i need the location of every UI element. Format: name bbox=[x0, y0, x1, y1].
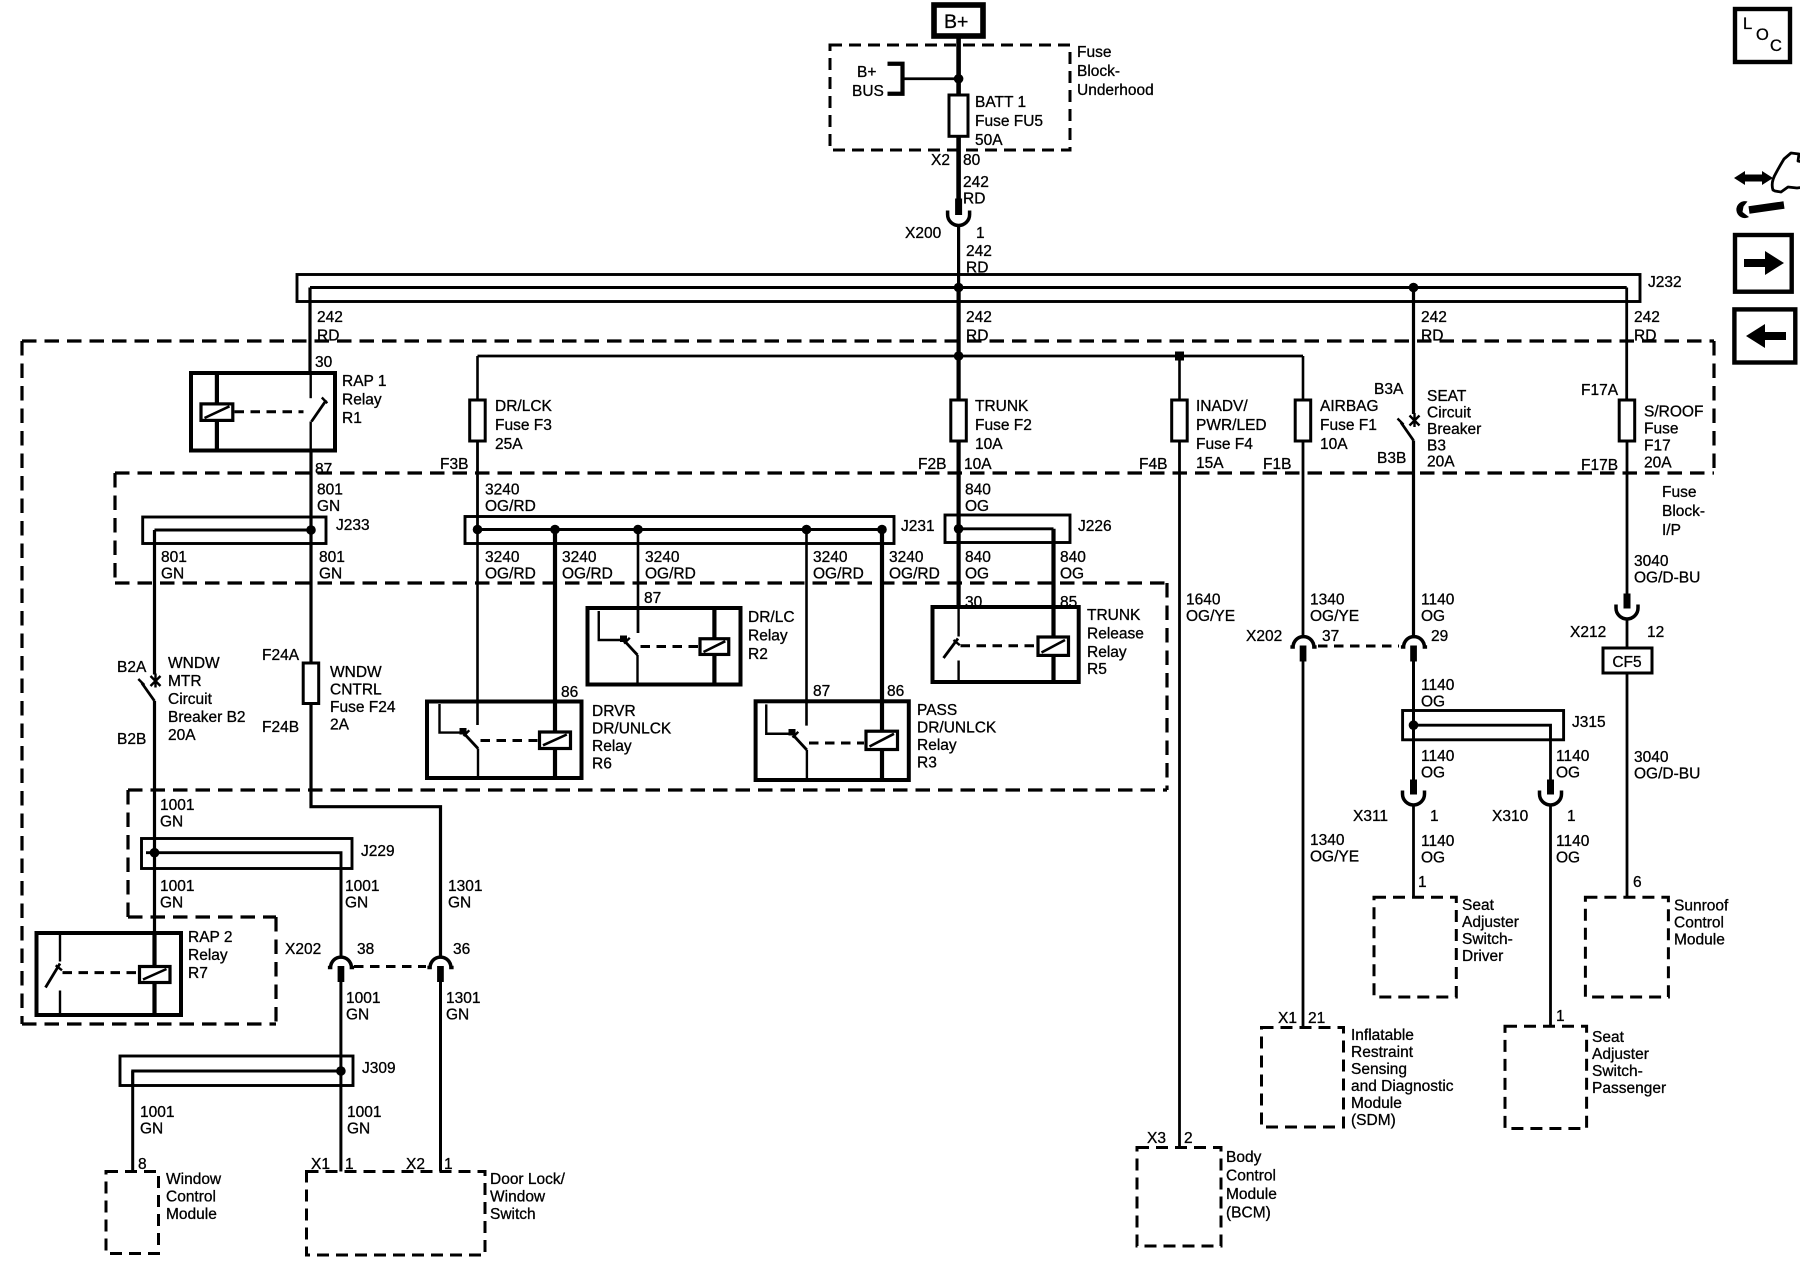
dashed segment x128 bbox=[126, 790, 129, 917]
svg-text:1: 1 bbox=[976, 225, 985, 242]
svg-text:6: 6 bbox=[1633, 874, 1642, 891]
svg-text:38: 38 bbox=[357, 941, 374, 958]
svg-text:Relay: Relay bbox=[342, 392, 382, 409]
relay R6 coil bbox=[540, 732, 571, 778]
inline connector CF5 box bbox=[1603, 648, 1652, 673]
svg-text:X212: X212 bbox=[1570, 624, 1606, 641]
svg-text:1001: 1001 bbox=[160, 797, 194, 814]
svg-text:Module: Module bbox=[1351, 1095, 1402, 1112]
svg-text:MTR: MTR bbox=[168, 673, 202, 690]
svg-text:OG: OG bbox=[1060, 566, 1084, 583]
svg-text:Circuit: Circuit bbox=[1427, 405, 1472, 422]
dashed link X202 upper bbox=[1318, 645, 1399, 648]
svg-text:DR/LCK: DR/LCK bbox=[495, 398, 553, 415]
svg-text:RAP 2: RAP 2 bbox=[188, 929, 233, 946]
svg-text:DR/UNLCK: DR/UNLCK bbox=[592, 721, 672, 738]
svg-text:Passenger: Passenger bbox=[1592, 1080, 1666, 1097]
svg-text:10A: 10A bbox=[1320, 436, 1348, 453]
svg-text:OG/RD: OG/RD bbox=[889, 566, 940, 583]
svg-text:Seat: Seat bbox=[1592, 1029, 1625, 1046]
svg-text:Sunroof: Sunroof bbox=[1674, 898, 1729, 915]
svg-text:1640: 1640 bbox=[1186, 592, 1221, 609]
svg-text:Fuse F2: Fuse F2 bbox=[975, 417, 1032, 434]
svg-text:Fuse: Fuse bbox=[1644, 421, 1678, 438]
svg-text:10A: 10A bbox=[975, 436, 1003, 453]
svg-text:1140: 1140 bbox=[1421, 677, 1455, 694]
relay R1 actuator dashed bbox=[235, 410, 304, 413]
wire F1B to X202-37, 1340 OG/YE bbox=[1302, 441, 1305, 637]
svg-text:OG/RD: OG/RD bbox=[485, 566, 536, 583]
wire J229 to RAP2 coil, 1001 GN bbox=[153, 853, 156, 933]
splice pack J231 inner line bbox=[478, 528, 883, 531]
wire feeder to fuse F3 bbox=[476, 356, 479, 400]
svg-text:X202: X202 bbox=[1246, 628, 1282, 645]
circuit breaker B2 WNDW MTR 20A bbox=[138, 674, 160, 702]
svg-text:GN: GN bbox=[160, 895, 183, 912]
svg-text:F17: F17 bbox=[1644, 438, 1671, 455]
svg-text:Control: Control bbox=[166, 1189, 216, 1206]
svg-text:Module: Module bbox=[1226, 1186, 1277, 1203]
SDM dashed box bbox=[1262, 1028, 1344, 1128]
fuse F1 AIRBAG 10A bbox=[1295, 400, 1311, 441]
wire X202-36 to door lock X2-1, 1301 GN bbox=[439, 982, 442, 1172]
svg-text:F17A: F17A bbox=[1581, 382, 1619, 399]
svg-text:SEAT: SEAT bbox=[1427, 388, 1467, 405]
relay R7 switch bbox=[46, 933, 63, 1015]
svg-text:J231: J231 bbox=[901, 518, 935, 535]
wire J231 to R3 87, 3240 OG/RD bbox=[805, 530, 808, 726]
splice pack J309 outer bbox=[120, 1056, 353, 1086]
svg-text:and Diagnostic: and Diagnostic bbox=[1351, 1078, 1454, 1095]
wire J233 to breaker B2A, 801 GN bbox=[153, 530, 156, 675]
svg-text:80: 80 bbox=[963, 152, 981, 169]
wire F24B to X202-36, 1301 GN bbox=[311, 704, 441, 958]
svg-text:F2B: F2B bbox=[918, 456, 946, 473]
svg-text:DRVR: DRVR bbox=[592, 703, 636, 720]
svg-text:C: C bbox=[1770, 37, 1782, 55]
svg-text:DR/UNLCK: DR/UNLCK bbox=[917, 720, 997, 737]
svg-text:3240: 3240 bbox=[889, 549, 924, 566]
svg-text:DR/LC: DR/LC bbox=[748, 609, 795, 626]
svg-text:Fuse F24: Fuse F24 bbox=[330, 699, 396, 716]
wire F4B to BCM, 1640 OG/YE bbox=[1178, 441, 1181, 1148]
svg-text:1301: 1301 bbox=[448, 878, 482, 895]
svg-text:F1B: F1B bbox=[1263, 456, 1291, 473]
junction square dot feeder at F4 bbox=[1175, 352, 1184, 361]
relay R7 actuator dashed bbox=[63, 971, 138, 974]
svg-text:OG/RD: OG/RD bbox=[562, 566, 613, 583]
junction dot feeder at F2 bbox=[954, 351, 964, 361]
svg-text:Module: Module bbox=[166, 1206, 217, 1223]
wire J233 to fuse F24A, 801 GN bbox=[309, 530, 312, 663]
svg-text:1340: 1340 bbox=[1310, 592, 1345, 609]
svg-text:F24A: F24A bbox=[262, 647, 300, 664]
svg-text:X310: X310 bbox=[1492, 808, 1529, 825]
wire J229 to X202-38, 1001 GN bbox=[340, 869, 343, 958]
svg-text:Adjuster: Adjuster bbox=[1592, 1046, 1649, 1063]
svg-text:(SDM): (SDM) bbox=[1351, 1112, 1396, 1129]
dashed segment x1167 bbox=[1165, 583, 1168, 790]
svg-text:CNTRL: CNTRL bbox=[330, 682, 382, 699]
svg-text:O: O bbox=[1756, 26, 1769, 44]
svg-text:Relay: Relay bbox=[917, 737, 957, 754]
svg-text:Inflatable: Inflatable bbox=[1351, 1027, 1414, 1044]
svg-text:BATT 1: BATT 1 bbox=[975, 94, 1026, 111]
fuse F17 S/ROOF 20A bbox=[1619, 400, 1635, 441]
svg-text:20A: 20A bbox=[168, 727, 196, 744]
wire X310 to passenger switch, 1140 OG bbox=[1549, 806, 1552, 1027]
splice pack J233 inner line bbox=[155, 529, 312, 532]
wire CF5 to sunroof module, 3040 OG/D-BU bbox=[1626, 673, 1629, 897]
fuse block I/P dashed outline left bbox=[20, 341, 23, 1024]
relay R5 TRUNK Release box bbox=[933, 607, 1079, 682]
relay R1 coil bbox=[201, 373, 233, 451]
svg-text:B3: B3 bbox=[1427, 438, 1446, 455]
svg-text:29: 29 bbox=[1431, 628, 1448, 645]
wire feeder to fuse F1 bbox=[1302, 356, 1305, 400]
svg-text:1140: 1140 bbox=[1421, 592, 1455, 609]
wire J231 to R6 switch, 3240 OG/RD bbox=[476, 530, 479, 726]
svg-text:1001: 1001 bbox=[345, 878, 379, 895]
node B+ BUS bracket bbox=[852, 64, 903, 100]
svg-text:OG/YE: OG/YE bbox=[1186, 608, 1235, 625]
svg-text:OG: OG bbox=[1421, 850, 1445, 867]
wire B+ to fuse FU5 bbox=[956, 37, 961, 96]
relay R5 actuator dashed bbox=[961, 644, 1037, 647]
svg-text:OG: OG bbox=[1421, 608, 1445, 625]
nav box arrow left bbox=[1734, 309, 1795, 362]
wire fuse FU5 to X200, 242 RD bbox=[956, 136, 961, 198]
splice pack J309 inner line bbox=[133, 1071, 341, 1086]
svg-text:242: 242 bbox=[966, 309, 992, 326]
svg-text:(BCM): (BCM) bbox=[1226, 1205, 1271, 1222]
fuse block I/P dashed outline right bbox=[1712, 341, 1715, 473]
svg-text:1001: 1001 bbox=[160, 878, 194, 895]
svg-text:OG: OG bbox=[965, 498, 989, 515]
svg-text:36: 36 bbox=[453, 941, 470, 958]
svg-text:RAP 1: RAP 1 bbox=[342, 373, 387, 390]
fuse F24 WNDW CNTRL 2A bbox=[303, 663, 319, 704]
svg-text:840: 840 bbox=[965, 549, 991, 566]
svg-text:OG: OG bbox=[1421, 694, 1445, 711]
wire X202-38 to J309, 1001 GN bbox=[339, 982, 342, 1071]
connector X311 bbox=[1403, 780, 1425, 806]
wire B+ BUS tap bbox=[903, 77, 959, 80]
splice pack J315 outer bbox=[1403, 711, 1564, 740]
wire bus to breaker B3, 242 RD bbox=[1412, 288, 1415, 415]
svg-text:B2B: B2B bbox=[117, 731, 146, 748]
svg-text:Fuse F3: Fuse F3 bbox=[495, 417, 552, 434]
svg-text:TRUNK: TRUNK bbox=[975, 398, 1029, 415]
svg-text:J233: J233 bbox=[336, 517, 370, 534]
fuse F4 INADV/PWR/LED 15A bbox=[1172, 400, 1188, 441]
svg-text:30: 30 bbox=[315, 354, 333, 371]
bus bar J232 outer bbox=[297, 275, 1640, 302]
svg-text:OG/RD: OG/RD bbox=[813, 566, 864, 583]
svg-text:801: 801 bbox=[319, 549, 345, 566]
wire J315 to X310, 1140 OG bbox=[1549, 740, 1552, 780]
svg-text:F3B: F3B bbox=[440, 456, 468, 473]
svg-text:WNDW: WNDW bbox=[168, 655, 220, 672]
door lock window switch dashed box bbox=[307, 1172, 486, 1256]
svg-text:Body: Body bbox=[1226, 1149, 1262, 1166]
svg-text:Fuse: Fuse bbox=[1662, 484, 1696, 501]
splice pack J233 outer bbox=[143, 517, 326, 544]
svg-text:Adjuster: Adjuster bbox=[1462, 914, 1519, 931]
connector X202-29 bbox=[1401, 637, 1427, 662]
svg-text:GN: GN bbox=[319, 566, 342, 583]
fuse F2 TRUNK 10A bbox=[951, 400, 967, 441]
svg-text:Fuse F1: Fuse F1 bbox=[1320, 417, 1377, 434]
svg-text:RD: RD bbox=[963, 191, 985, 208]
junction dot J233 at F24 column bbox=[306, 525, 316, 535]
wire B2B to J229, 1001 GN bbox=[153, 701, 156, 853]
svg-text:TRUNK: TRUNK bbox=[1087, 607, 1141, 624]
svg-text:242: 242 bbox=[317, 309, 343, 326]
sunroof control module dashed box bbox=[1585, 897, 1668, 997]
svg-text:Driver: Driver bbox=[1462, 948, 1503, 965]
svg-text:242: 242 bbox=[966, 243, 992, 260]
seat adjuster switch driver dashed box bbox=[1374, 897, 1456, 997]
bus bar J232 inner line bbox=[310, 286, 1627, 289]
svg-text:2A: 2A bbox=[330, 717, 350, 734]
relay R2 coil bbox=[700, 608, 729, 685]
svg-text:Window: Window bbox=[490, 1189, 546, 1206]
svg-text:B3A: B3A bbox=[1374, 381, 1404, 398]
svg-text:Module: Module bbox=[1674, 932, 1725, 949]
fuse block I/P dashed outline top bbox=[22, 339, 1714, 342]
fuse F3 DR/LCK 25A bbox=[470, 400, 486, 441]
connector X212 bbox=[1616, 594, 1638, 620]
fuse FU5 BATT 1 50A bbox=[949, 95, 968, 136]
wire F17B to X212, 3040 OG/D-BU bbox=[1626, 441, 1629, 594]
relay R3 switch bbox=[766, 704, 807, 780]
svg-text:801: 801 bbox=[161, 549, 187, 566]
svg-text:37: 37 bbox=[1322, 628, 1339, 645]
relay R7 coil bbox=[140, 967, 171, 1016]
splice pack J226 outer bbox=[945, 515, 1070, 543]
junction dot J226 bbox=[954, 524, 964, 534]
svg-text:1140: 1140 bbox=[1556, 833, 1590, 850]
svg-text:1140: 1140 bbox=[1556, 748, 1590, 765]
connector X202-37 bbox=[1290, 637, 1316, 662]
svg-text:OG/YE: OG/YE bbox=[1310, 849, 1359, 866]
connector X202-36 bbox=[427, 957, 453, 982]
relay R5 switch bbox=[944, 607, 960, 682]
svg-text:1: 1 bbox=[1556, 1008, 1565, 1025]
connector X200 bbox=[948, 199, 970, 226]
svg-text:Breaker B2: Breaker B2 bbox=[168, 709, 246, 726]
junction dot bus at SEAT drop bbox=[1409, 283, 1419, 293]
svg-text:X202: X202 bbox=[285, 941, 321, 958]
svg-text:3240: 3240 bbox=[562, 549, 597, 566]
BCM dashed box bbox=[1137, 1148, 1221, 1247]
LOC reference box bbox=[1735, 9, 1790, 62]
svg-text:X3: X3 bbox=[1147, 1130, 1166, 1147]
svg-text:Door Lock/: Door Lock/ bbox=[490, 1171, 566, 1188]
relay R3 actuator dashed bbox=[809, 742, 864, 745]
wire RAP1 87 to J233, 801 GN bbox=[309, 451, 312, 531]
nav box arrow right bbox=[1735, 235, 1792, 292]
svg-text:CF5: CF5 bbox=[1612, 654, 1641, 671]
relay R2 actuator dashed bbox=[641, 645, 699, 648]
relay R6 switch bbox=[440, 704, 479, 778]
svg-text:F24B: F24B bbox=[262, 719, 299, 736]
relay R1 RAP 1 box bbox=[191, 373, 335, 451]
svg-text:OG/YE: OG/YE bbox=[1310, 608, 1359, 625]
svg-text:X200: X200 bbox=[905, 225, 942, 242]
connector X202-38 bbox=[328, 957, 354, 982]
svg-text:OG/RD: OG/RD bbox=[645, 566, 696, 583]
svg-text:S/ROOF: S/ROOF bbox=[1644, 404, 1703, 421]
svg-text:Seat: Seat bbox=[1462, 897, 1495, 914]
svg-text:86: 86 bbox=[887, 683, 904, 700]
svg-text:1001: 1001 bbox=[347, 1104, 381, 1121]
wire J309 through to window module, 1001 GN bbox=[131, 1071, 134, 1172]
junction dot B+ bus bbox=[954, 74, 964, 84]
svg-text:B+: B+ bbox=[857, 64, 876, 81]
splice pack J231 outer bbox=[465, 517, 894, 544]
svg-text:J232: J232 bbox=[1648, 274, 1682, 291]
svg-text:GN: GN bbox=[448, 895, 471, 912]
relay R3 coil bbox=[866, 731, 898, 780]
svg-text:15A: 15A bbox=[1196, 455, 1224, 472]
svg-text:1: 1 bbox=[1567, 808, 1576, 825]
svg-text:R7: R7 bbox=[188, 965, 208, 982]
relay R6 DRVR DR/UNLCK box bbox=[427, 702, 582, 779]
svg-text:X1: X1 bbox=[1278, 1010, 1297, 1027]
seat adjuster switch passenger dashed box bbox=[1505, 1026, 1587, 1128]
wire feeder to fuse F4 bbox=[1178, 356, 1181, 400]
icon wrench bbox=[1736, 201, 1784, 218]
svg-text:R2: R2 bbox=[748, 646, 768, 663]
svg-text:L: L bbox=[1743, 15, 1752, 33]
svg-text:242: 242 bbox=[1634, 309, 1660, 326]
relay R2 DR/LC box bbox=[588, 608, 741, 685]
svg-text:J226: J226 bbox=[1078, 518, 1112, 535]
svg-text:OG/D-BU: OG/D-BU bbox=[1634, 570, 1700, 587]
svg-text:Block-: Block- bbox=[1662, 503, 1705, 520]
wire bus end to fuse F17, 242 RD bbox=[1625, 288, 1628, 401]
svg-text:INADV/: INADV/ bbox=[1196, 398, 1248, 415]
relay R3 PASS DR/UNLCK box bbox=[756, 701, 909, 780]
junction dot J315 bbox=[1409, 720, 1419, 730]
svg-text:Window: Window bbox=[166, 1171, 222, 1188]
splice pack J229 outer bbox=[142, 839, 353, 869]
svg-text:3240: 3240 bbox=[485, 482, 520, 499]
circuit breaker B3 SEAT 20A bbox=[1398, 413, 1420, 441]
svg-text:3240: 3240 bbox=[813, 549, 848, 566]
relay R5 coil bbox=[1038, 637, 1069, 682]
wire J231 to R6 coil 86, 3240 OG/RD bbox=[553, 530, 557, 733]
junction dot J229 bbox=[150, 848, 160, 858]
wire X202-37 to SDM X1-21, 1340 OG/YE bbox=[1302, 662, 1305, 1027]
svg-text:3240: 3240 bbox=[485, 549, 520, 566]
svg-text:GN: GN bbox=[346, 1007, 369, 1024]
wire J231 to R2 87, 3240 OG/RD bbox=[637, 530, 640, 634]
wire X311 to driver switch, 1140 OG bbox=[1412, 806, 1415, 898]
svg-text:1: 1 bbox=[1418, 874, 1427, 891]
svg-text:86: 86 bbox=[561, 684, 578, 701]
svg-text:BUS: BUS bbox=[852, 83, 884, 100]
svg-text:OG/RD: OG/RD bbox=[485, 498, 536, 515]
fuse block I/P dashed divider y473 bbox=[115, 471, 1714, 474]
svg-text:3040: 3040 bbox=[1634, 553, 1669, 570]
svg-text:I/P: I/P bbox=[1662, 522, 1681, 539]
splice pack J226 inner line bbox=[959, 527, 1054, 530]
svg-text:B3B: B3B bbox=[1377, 450, 1406, 467]
svg-text:Switch-: Switch- bbox=[1462, 931, 1513, 948]
svg-text:Circuit: Circuit bbox=[168, 691, 213, 708]
window control module dashed box bbox=[106, 1172, 159, 1254]
svg-text:10A: 10A bbox=[964, 456, 992, 473]
relay R2 switch bbox=[599, 608, 638, 685]
svg-text:12: 12 bbox=[1647, 624, 1664, 641]
svg-text:1140: 1140 bbox=[1421, 748, 1455, 765]
relay R1 switch bbox=[311, 373, 328, 451]
svg-text:21: 21 bbox=[1308, 1010, 1325, 1027]
wire X200 to bus J232, 242 RD bbox=[957, 226, 960, 288]
svg-text:1301: 1301 bbox=[446, 990, 480, 1007]
svg-text:X311: X311 bbox=[1353, 808, 1388, 825]
svg-text:OG: OG bbox=[1556, 765, 1580, 782]
svg-text:1001: 1001 bbox=[140, 1104, 174, 1121]
svg-text:840: 840 bbox=[965, 482, 991, 499]
junction dot J309 bbox=[336, 1066, 346, 1076]
svg-text:GN: GN bbox=[446, 1007, 469, 1024]
svg-text:Breaker: Breaker bbox=[1427, 421, 1481, 438]
svg-text:GN: GN bbox=[345, 895, 368, 912]
battery feed B+ terminal box bbox=[934, 5, 983, 36]
wire X202-29 to J315 and X311, 1140 OG bbox=[1412, 662, 1415, 780]
relay R7 RAP 2 box bbox=[37, 933, 182, 1015]
svg-text:Underhood: Underhood bbox=[1077, 82, 1154, 99]
svg-text:AIRBAG: AIRBAG bbox=[1320, 398, 1379, 415]
svg-text:GN: GN bbox=[161, 566, 184, 583]
svg-text:GN: GN bbox=[347, 1121, 370, 1138]
fuse block underhood dashed box bbox=[830, 45, 1070, 150]
wire feeder line y356 F3 to F1 bbox=[478, 355, 1304, 358]
svg-text:OG: OG bbox=[1421, 765, 1445, 782]
dashed divider y583 bbox=[115, 581, 1167, 584]
svg-text:Switch-: Switch- bbox=[1592, 1063, 1643, 1080]
junction dots J231 bbox=[473, 525, 887, 535]
svg-text:GN: GN bbox=[317, 498, 340, 515]
svg-text:242: 242 bbox=[1421, 309, 1447, 326]
svg-text:B+: B+ bbox=[944, 11, 968, 33]
svg-text:242: 242 bbox=[963, 174, 989, 191]
junction dot bus at X200 drop bbox=[954, 283, 964, 293]
svg-text:B2A: B2A bbox=[117, 659, 147, 676]
svg-text:801: 801 bbox=[317, 482, 343, 499]
splice pack J315 inner line bbox=[1409, 725, 1551, 740]
connector X310 bbox=[1540, 780, 1562, 806]
svg-text:Fuse F4: Fuse F4 bbox=[1196, 436, 1253, 453]
svg-text:J315: J315 bbox=[1572, 714, 1606, 731]
svg-text:1340: 1340 bbox=[1310, 832, 1345, 849]
svg-text:87: 87 bbox=[315, 461, 332, 478]
svg-text:J229: J229 bbox=[361, 843, 395, 860]
dashed segment y917 bbox=[128, 915, 276, 918]
svg-text:3040: 3040 bbox=[1634, 749, 1669, 766]
svg-text:J309: J309 bbox=[362, 1060, 396, 1077]
svg-text:1: 1 bbox=[1430, 808, 1439, 825]
dashed bottom y1024 bbox=[22, 1022, 276, 1025]
svg-text:R3: R3 bbox=[917, 755, 937, 772]
dashed link X202 lower bbox=[354, 965, 426, 968]
svg-text:25A: 25A bbox=[495, 436, 523, 453]
svg-text:87: 87 bbox=[644, 590, 661, 607]
